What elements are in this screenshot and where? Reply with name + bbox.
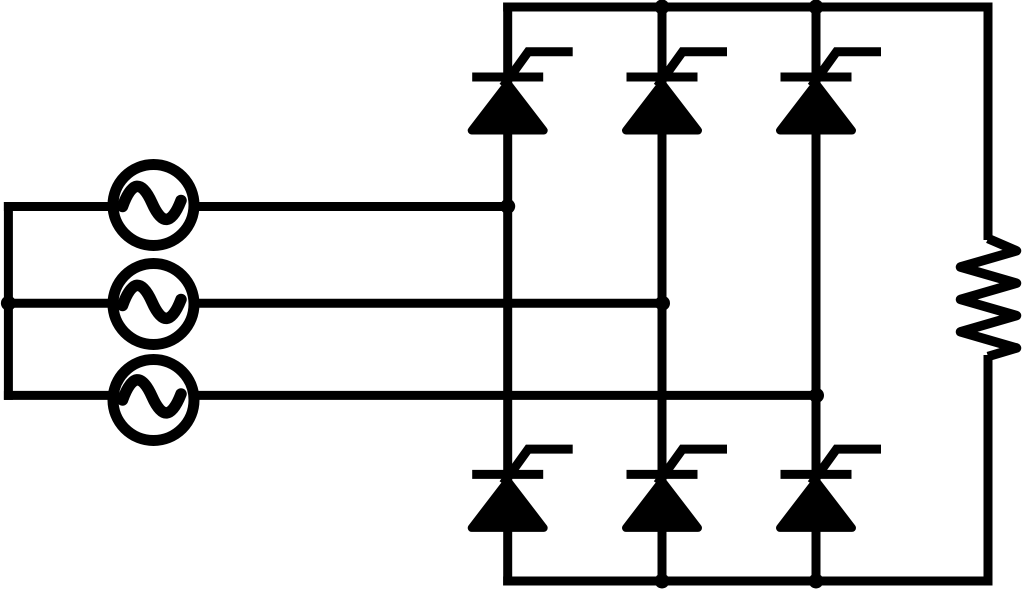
- AC source V1 (phase A): [113, 165, 194, 246]
- thyristor SCR5 (top, leg 3): [780, 52, 881, 131]
- resistor R load zigzag: [961, 239, 1017, 357]
- wire: phase A horizontal: [4, 202, 512, 211]
- wire: phase B horizontal: [4, 299, 667, 308]
- wire: left neutral bus vertical: [4, 202, 13, 400]
- wire: bottom DC- rail: [503, 577, 992, 586]
- thyristor SCR4 (bottom, leg 1): [472, 449, 573, 528]
- wire: right branch lower stub: [984, 355, 993, 586]
- thyristor SCR1 (top, leg 1): [472, 52, 573, 131]
- wire: bridge leg 2 vertical: [658, 3, 667, 586]
- node: top rail / leg 3 junction: [809, 0, 824, 15]
- node: phase B / leg 2 junction: [655, 296, 670, 311]
- node: bottom rail / leg 2 junction: [655, 574, 670, 589]
- node: phase A / leg 1 junction: [500, 199, 515, 214]
- wire: phase C horizontal: [4, 391, 821, 400]
- wire: right branch upper stub: [984, 3, 993, 241]
- thyristor SCR6 (bottom, leg 2): [626, 449, 727, 528]
- thyristor SCR2 (bottom, leg 3): [780, 449, 881, 528]
- AC source V2 (phase B): [113, 264, 194, 345]
- node: neutral bus / phase B junction: [1, 296, 16, 311]
- node: phase C / leg 3 junction: [809, 388, 824, 403]
- wire: bridge leg 3 vertical: [812, 3, 821, 586]
- wire: bridge leg 1 vertical: [503, 3, 512, 586]
- wire: top DC+ rail: [503, 3, 992, 12]
- AC source V3 (phase C): [113, 360, 194, 441]
- node: bottom rail / leg 3 junction: [809, 574, 824, 589]
- thyristor SCR3 (top, leg 2): [626, 52, 727, 131]
- node: top rail / leg 2 junction: [655, 0, 670, 15]
